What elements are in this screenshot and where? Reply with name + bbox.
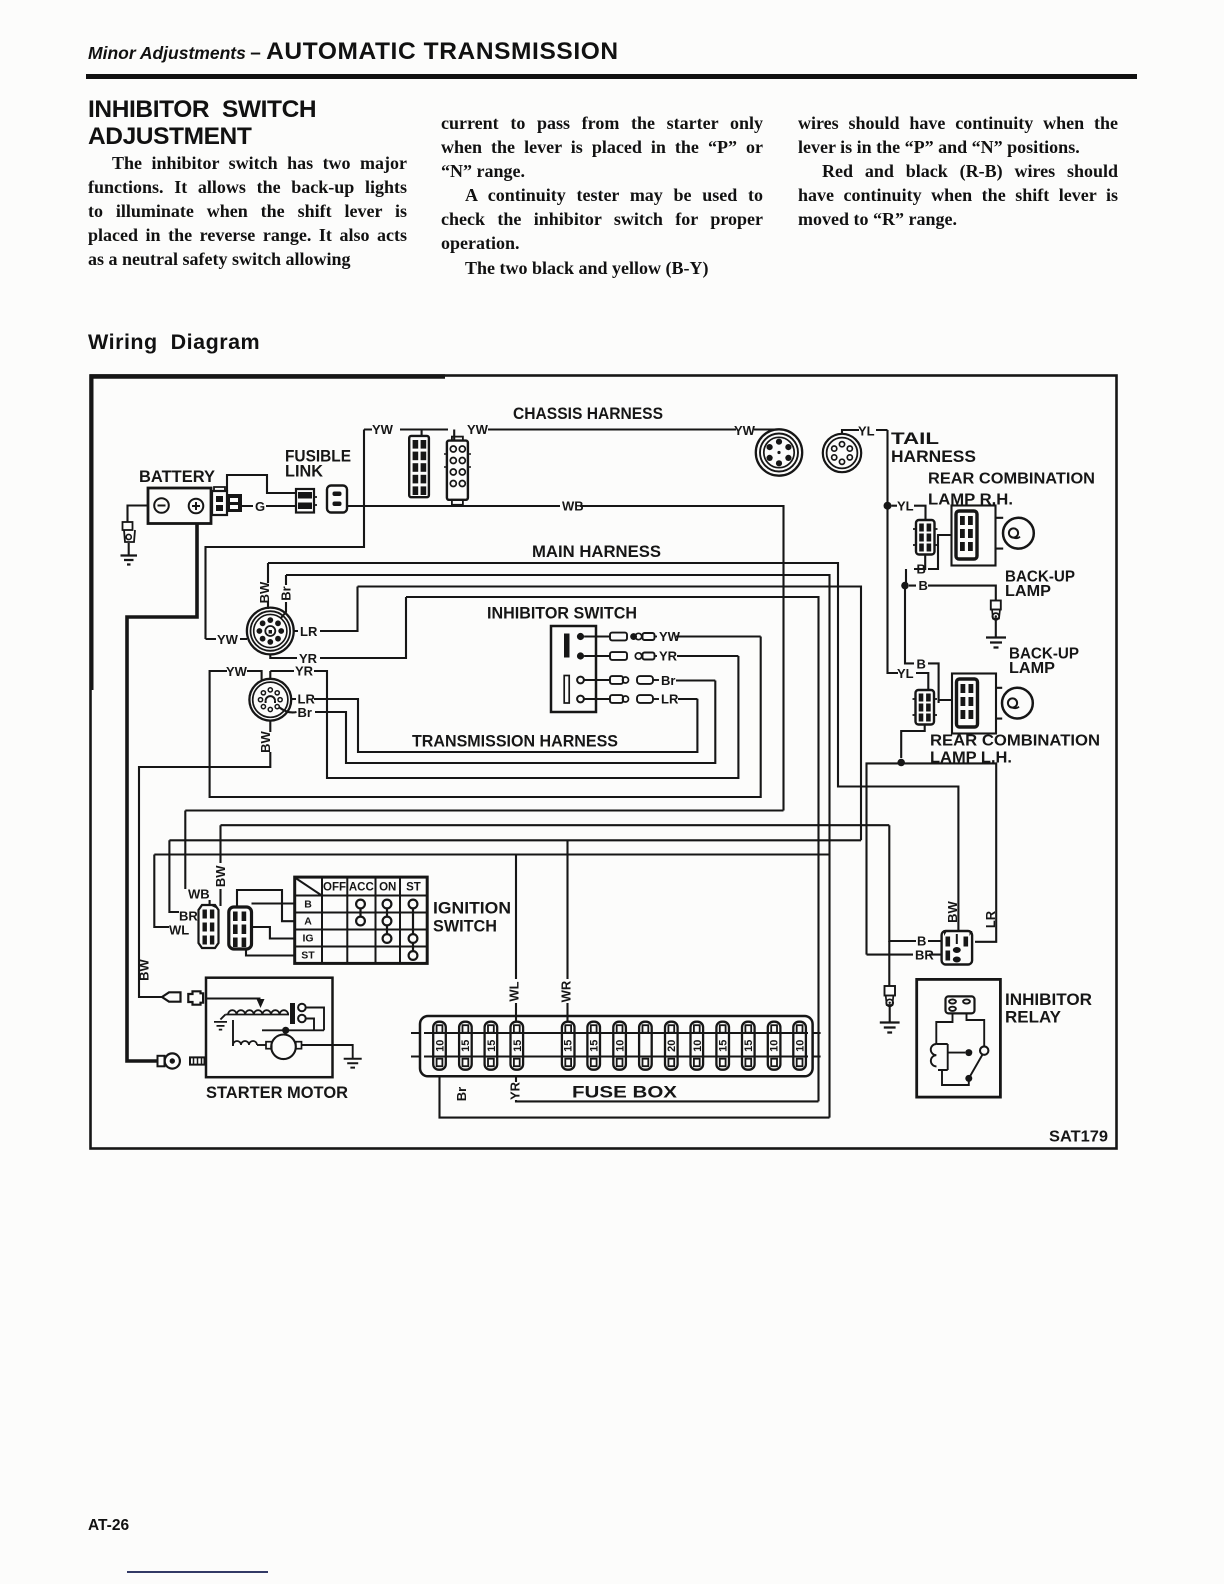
wire YL branch to RH lamp conn (892, 506, 926, 520)
fuse 8 (blank) (639, 1022, 652, 1070)
svg-text:YR: YR (295, 664, 314, 679)
connector round 8-pin upper (transmission, filled) (247, 608, 294, 655)
svg-text:LAMP L.H.: LAMP L.H. (930, 750, 1012, 767)
column 2 (441, 111, 763, 280)
svg-text:INHIBITOR SWITCH: INHIBITOR SWITCH (487, 605, 637, 623)
wire bundle WL line (154, 855, 829, 928)
wire upper conn LR riser (294, 587, 358, 632)
wire G battery to fusible link (242, 505, 296, 507)
diagram frame (91, 376, 1117, 1149)
svg-text:15: 15 (718, 1040, 730, 1052)
ignition switch table (295, 877, 428, 963)
svg-text:SAT179: SAT179 (1049, 1129, 1108, 1146)
fuse 12 (15A) (742, 1022, 755, 1070)
wire fuse Br bottom (440, 1076, 830, 1117)
wire Br label riser upper conn (281, 575, 287, 619)
svg-text:15: 15 (486, 1040, 498, 1052)
svg-text:10: 10 (769, 1040, 781, 1052)
wire: YW riser from y547 (206, 430, 365, 640)
svg-text:TAIL: TAIL (891, 429, 939, 448)
connector round 6-pin (open) tail (823, 430, 888, 472)
svg-text:B: B (917, 657, 926, 672)
wire BW lower conn to starter (139, 721, 270, 997)
svg-text:YL: YL (897, 666, 914, 681)
connector rear lamp RH outer 6-pin (913, 520, 938, 555)
wire relay B and ground chain (889, 825, 941, 941)
svg-text:YW: YW (217, 632, 239, 647)
svg-text:20: 20 (666, 1040, 678, 1052)
svg-text:TRANSMISSION HARNESS: TRANSMISSION HARNESS (412, 733, 618, 751)
wire hump battery to fusible link (227, 475, 296, 493)
running head (88, 38, 1148, 66)
svg-text:ST: ST (406, 882, 421, 894)
svg-text:15: 15 (512, 1040, 524, 1052)
wire main harness line y586.5 (358, 587, 862, 841)
connector starter S bullet (162, 991, 261, 1004)
fuse 9 (20A) (665, 1022, 678, 1070)
wire upper conn YR riser (270, 597, 406, 658)
svg-text:WR: WR (559, 980, 574, 1002)
battery positive thick wire to starter (127, 524, 197, 1062)
svg-text:WB: WB (562, 499, 584, 514)
wire switch YW to loop (676, 635, 761, 637)
svg-text:ACC: ACC (349, 882, 374, 894)
svg-text:LAMP: LAMP (1005, 583, 1051, 600)
wire switch Br to loop (676, 679, 715, 681)
fuse 7 (10A) (613, 1022, 626, 1070)
svg-text:REAR COMBINATION: REAR COMBINATION (928, 471, 1095, 488)
wire switch LR to loop (678, 698, 697, 700)
svg-text:IG: IG (302, 933, 313, 945)
svg-text:YW: YW (734, 423, 756, 438)
svg-text:LR: LR (661, 692, 679, 707)
svg-text:YW: YW (467, 422, 489, 437)
svg-text:YW: YW (226, 664, 248, 679)
svg-text:B: B (304, 899, 312, 911)
connector round 8-pin lower (transmission, open) (249, 679, 291, 721)
connector round 6-pin (filled) chassis (756, 429, 802, 475)
svg-text:B: B (917, 562, 926, 577)
connector rear lamp RH inner 6-pin (956, 511, 977, 559)
svg-text:BW: BW (257, 581, 272, 603)
wire B to backup lamp RH (909, 586, 996, 601)
svg-text:10: 10 (435, 1040, 447, 1052)
column 1 heading (88, 96, 316, 150)
lamp bulb LH (1002, 688, 1033, 719)
svg-text:BW: BW (945, 900, 960, 922)
wire WR fuse drop (566, 840, 568, 1021)
wire Br lower conn (280, 681, 716, 764)
wire main harness line y575 (286, 575, 830, 1118)
svg-text:BR: BR (179, 909, 198, 924)
fuse 4 (15A) (511, 1022, 524, 1070)
junction YL tail (884, 502, 892, 510)
fuse 10 (10A) (691, 1022, 704, 1070)
switch terminal symbols row Br (610, 676, 659, 684)
wire fuse YR bottom (516, 1076, 819, 1101)
wire BW label riser upper conn (267, 563, 269, 609)
svg-text:WL: WL (507, 981, 522, 1001)
connector relay 4-pin (942, 931, 973, 965)
battery negative wire + ground (121, 506, 149, 565)
fuse 3 (15A) (485, 1022, 498, 1070)
svg-text:10: 10 (692, 1040, 704, 1052)
wire ignition feed ST row (246, 949, 295, 956)
wire bundle BW line (221, 825, 890, 906)
ground chain relay (880, 941, 900, 1033)
svg-text:LR: LR (983, 910, 998, 928)
wire: chassis harness YW line (364, 428, 775, 430)
wire ignition feed A row (237, 890, 295, 921)
wire B down to LH (905, 586, 952, 703)
switch terminal symbols row YR (610, 652, 657, 660)
svg-text:Br: Br (298, 705, 312, 720)
wire bundle BR line (169, 840, 861, 912)
svg-text:LAMP R.H.: LAMP R.H. (928, 492, 1013, 509)
svg-text:BW: BW (137, 958, 152, 980)
connector rear lamp LH inner 6-pin (957, 679, 978, 727)
fuse 14 (10A) (793, 1022, 806, 1070)
svg-text:LAMP: LAMP (1009, 660, 1055, 677)
junction LR line (897, 759, 905, 767)
svg-text:15: 15 (589, 1040, 601, 1052)
fuse 2 (15A) (459, 1022, 472, 1070)
svg-text:G: G (255, 499, 265, 514)
wire LH outer conn B drop to junction (901, 725, 925, 759)
svg-text:YR: YR (508, 1081, 523, 1100)
wire RH inner conn to lamp (952, 506, 996, 566)
svg-text:MAIN HARNESS: MAIN HARNESS (532, 542, 661, 561)
svg-text:B: B (917, 934, 926, 949)
wire tail harness YL drop (888, 430, 929, 690)
connector rear lamp LH outer 6-pin (913, 690, 938, 725)
svg-text:ON: ON (379, 882, 396, 894)
column 3 (798, 111, 1118, 231)
wire relay BR (867, 954, 942, 956)
lamp bulb RH (1003, 518, 1034, 549)
svg-text:LR: LR (300, 624, 318, 639)
fuse bus lines (411, 1033, 821, 1057)
ignition table headers (323, 882, 421, 894)
svg-text:REAR COMBINATION: REAR COMBINATION (930, 733, 1100, 750)
wire WB main line (347, 506, 784, 811)
svg-text:A: A (304, 916, 312, 928)
svg-text:Br: Br (454, 1087, 469, 1101)
svg-text:CHASSIS HARNESS: CHASSIS HARNESS (513, 404, 663, 423)
svg-text:HARNESS: HARNESS (891, 447, 976, 466)
backup lamp RH ground chain (986, 601, 1006, 648)
svg-text:WL: WL (169, 923, 189, 938)
wire ignition feed B row (252, 902, 295, 904)
fuse 13 (10A) (768, 1022, 781, 1070)
svg-text:STARTER MOTOR: STARTER MOTOR (206, 1083, 348, 1102)
svg-text:B: B (919, 578, 928, 593)
svg-text:OFF: OFF (323, 882, 346, 894)
fuse value labels (435, 1040, 807, 1052)
fusible link connector (dark) (296, 489, 317, 513)
svg-text:BW: BW (258, 730, 273, 752)
switch terminal symbols row LR (610, 695, 659, 703)
wire bundle WB line (185, 811, 783, 906)
svg-text:10: 10 (795, 1040, 807, 1052)
starter motor internals (214, 999, 362, 1068)
svg-text:YL: YL (858, 424, 875, 439)
wire YW into upper conn (206, 638, 248, 640)
svg-text:YW: YW (372, 422, 394, 437)
fusible link connector (open) (327, 486, 347, 513)
wire RH B drop (906, 535, 952, 585)
connector ignition left 6-pin (199, 904, 219, 948)
inhibitor relay box (917, 979, 1001, 1097)
junction B RH (901, 582, 909, 590)
fuse 1 (10A) (433, 1022, 446, 1070)
connector ignition right 6-pin (229, 907, 252, 949)
svg-text:10: 10 (615, 1040, 627, 1052)
svg-text:RELAY: RELAY (1005, 1008, 1062, 1027)
svg-text:ST: ST (301, 950, 315, 962)
connector starter B ring (158, 1053, 205, 1068)
svg-text:BW: BW (213, 865, 228, 887)
svg-text:SWITCH: SWITCH (433, 917, 497, 936)
section heading (88, 330, 260, 355)
wire YR lower loop (270, 656, 738, 778)
inhibitor switch box (551, 626, 610, 712)
column 1 body (88, 151, 407, 271)
svg-text:LINK: LINK (285, 463, 323, 481)
svg-text:15: 15 (563, 1040, 575, 1052)
fuse 11 (15A) (716, 1022, 729, 1070)
svg-text:15: 15 (743, 1040, 755, 1052)
fuse box outline (420, 1016, 813, 1076)
wire LR lower conn (291, 699, 697, 752)
battery terminal connector cluster (212, 487, 242, 515)
svg-text:YR: YR (659, 649, 678, 664)
svg-text:YL: YL (897, 499, 914, 514)
ignition contact circles (356, 900, 417, 960)
footer (88, 1517, 129, 1535)
svg-text:BR: BR (915, 948, 934, 963)
wire YW lower loop (210, 637, 761, 798)
svg-text:15: 15 (460, 1040, 472, 1052)
connector chassis 10-pin (filled) (409, 430, 429, 498)
svg-text:FUSE BOX: FUSE BOX (572, 1083, 678, 1102)
wire main harness line y597 (406, 597, 819, 1101)
svg-text:WB: WB (188, 887, 210, 902)
wire switch YR to loop (677, 655, 738, 657)
frame left upper thick artifact (90, 375, 94, 690)
fuse 5 (15A) (562, 1022, 575, 1070)
wire ignition feed IG row (252, 927, 295, 939)
svg-text:Br: Br (661, 673, 675, 688)
ignition row labels (301, 899, 315, 962)
relay internals (931, 996, 989, 1085)
wire LH inner conn to lamp (952, 674, 996, 734)
fuse 6 (15A) (587, 1022, 600, 1070)
svg-text:INHIBITOR: INHIBITOR (1005, 990, 1092, 1009)
svg-text:IGNITION: IGNITION (433, 899, 511, 918)
svg-text:BATTERY: BATTERY (139, 468, 215, 486)
frame top-left thick artifact (90, 374, 445, 379)
connector chassis 10-pin (open) (444, 430, 471, 505)
battery (148, 488, 211, 524)
svg-text:YW: YW (659, 629, 681, 644)
svg-text:Br: Br (278, 586, 293, 600)
wire LR relay feed (867, 763, 997, 954)
wire WL fuse drop (515, 855, 517, 1022)
switch terminal symbols row YW (610, 633, 657, 641)
starter motor box (206, 978, 333, 1077)
wire main harness line y563 (268, 563, 958, 931)
